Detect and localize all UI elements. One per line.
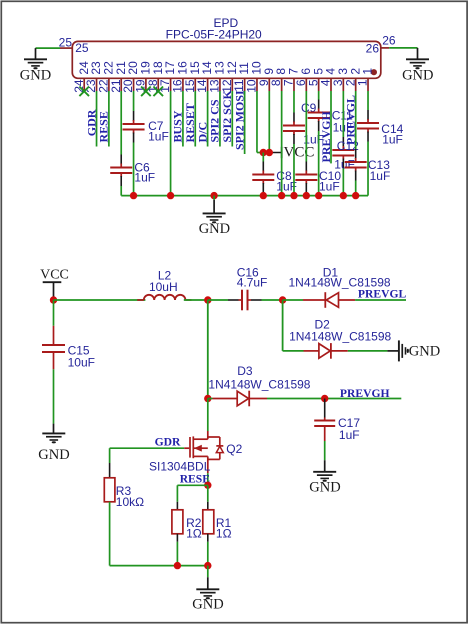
svg-text:PREVGL: PREVGL	[343, 95, 357, 145]
svg-text:19: 19	[139, 61, 153, 75]
svg-text:1uF: 1uF	[382, 132, 403, 146]
svg-text:6: 6	[299, 68, 313, 75]
svg-text:1uF: 1uF	[370, 169, 391, 183]
svg-text:10uF: 10uF	[68, 356, 95, 370]
svg-text:17: 17	[158, 79, 172, 93]
svg-text:1uF: 1uF	[319, 180, 340, 194]
svg-text:4.7uF: 4.7uF	[237, 275, 268, 289]
svg-text:8: 8	[274, 68, 288, 75]
svg-text:14: 14	[195, 79, 209, 93]
svg-text:1Ω: 1Ω	[186, 526, 202, 540]
svg-text:9: 9	[262, 68, 276, 75]
svg-text:1N4148W_C81598: 1N4148W_C81598	[289, 329, 391, 343]
svg-text:22: 22	[101, 61, 115, 75]
svg-text:1uF: 1uF	[148, 129, 169, 143]
svg-text:9: 9	[257, 79, 271, 86]
svg-text:FPC-05F-24PH20: FPC-05F-24PH20	[166, 27, 262, 41]
svg-text:11: 11	[232, 79, 246, 92]
svg-text:5: 5	[306, 79, 320, 86]
svg-text:25: 25	[75, 41, 89, 55]
svg-text:21: 21	[114, 61, 128, 75]
svg-text:23: 23	[89, 61, 103, 75]
svg-text:15: 15	[183, 79, 197, 93]
svg-text:2: 2	[343, 79, 357, 86]
svg-text:20: 20	[121, 79, 135, 93]
svg-text:RESE: RESE	[97, 111, 111, 142]
svg-text:15: 15	[188, 61, 202, 75]
svg-text:18: 18	[151, 61, 165, 75]
svg-text:1uF: 1uF	[334, 157, 355, 171]
svg-text:14: 14	[200, 61, 214, 75]
svg-text:12: 12	[225, 61, 239, 75]
svg-text:6: 6	[294, 79, 308, 86]
svg-text:SPI2 MOSI: SPI2 MOSI	[232, 90, 246, 150]
svg-text:GND: GND	[309, 480, 340, 496]
svg-text:1uF: 1uF	[339, 428, 360, 442]
svg-text:GDR: GDR	[155, 435, 181, 448]
svg-text:10uH: 10uH	[149, 280, 178, 294]
svg-text:13: 13	[213, 61, 227, 75]
svg-text:25: 25	[59, 36, 73, 50]
svg-text:VCC: VCC	[40, 267, 69, 282]
svg-text:2: 2	[348, 68, 362, 75]
svg-text:4: 4	[324, 68, 338, 75]
svg-text:3: 3	[331, 79, 345, 86]
svg-text:Q2: Q2	[226, 442, 242, 456]
svg-text:26: 26	[366, 41, 380, 55]
svg-text:GND: GND	[192, 597, 223, 613]
svg-text:PREVGH: PREVGH	[319, 111, 333, 163]
svg-text:10kΩ: 10kΩ	[116, 495, 144, 509]
svg-text:PREVGL: PREVGL	[358, 288, 407, 301]
svg-text:GND: GND	[20, 67, 51, 83]
svg-text:1uF: 1uF	[134, 170, 155, 184]
svg-text:16: 16	[171, 79, 185, 93]
svg-text:VCC: VCC	[284, 145, 315, 161]
svg-text:GND: GND	[409, 343, 440, 359]
svg-text:8: 8	[269, 79, 283, 86]
svg-text:1: 1	[361, 68, 375, 75]
svg-text:20: 20	[126, 61, 140, 75]
svg-text:24: 24	[77, 61, 91, 75]
svg-text:21: 21	[109, 79, 123, 93]
svg-text:17: 17	[163, 61, 177, 75]
svg-text:4: 4	[319, 79, 333, 86]
svg-text:PREVGH: PREVGH	[340, 387, 390, 400]
svg-text:10: 10	[250, 61, 264, 75]
svg-text:7: 7	[282, 79, 296, 86]
svg-text:3: 3	[336, 68, 350, 75]
svg-text:16: 16	[176, 61, 190, 75]
svg-text:7: 7	[287, 68, 301, 75]
svg-text:GND: GND	[38, 447, 69, 463]
svg-text:1Ω: 1Ω	[216, 526, 232, 540]
svg-text:10: 10	[245, 79, 259, 93]
svg-text:5: 5	[311, 68, 325, 75]
svg-text:23: 23	[84, 79, 98, 93]
svg-text:GND: GND	[199, 221, 230, 237]
svg-text:22: 22	[96, 79, 110, 93]
svg-text:GND: GND	[402, 67, 433, 83]
svg-text:D3: D3	[237, 364, 253, 378]
svg-text:1: 1	[356, 79, 370, 86]
svg-text:11: 11	[237, 62, 251, 75]
svg-text:1N4148W_C81598: 1N4148W_C81598	[208, 378, 310, 392]
svg-text:26: 26	[382, 34, 396, 48]
